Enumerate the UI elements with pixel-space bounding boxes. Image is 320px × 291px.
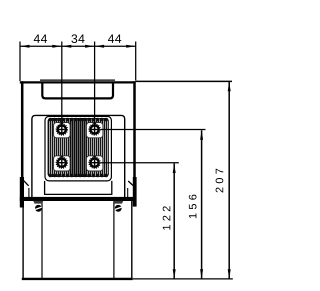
label 44: [108, 35, 121, 43]
arrowheads: [20, 45, 231, 279]
207 top extension: [136, 80, 232, 82]
122 arrow down: [173, 269, 176, 279]
dim line 207: [228, 82, 230, 279]
extension line left edge: [19, 42, 21, 82]
right chamfer: [128, 181, 133, 186]
156 arrow up: [200, 130, 203, 140]
clamp marks: [60, 122, 96, 157]
leader from top-right screw (156 ref): [101, 129, 206, 131]
left chamfer: [24, 181, 29, 186]
right nut under flange: [113, 201, 123, 204]
122 arrow up: [173, 164, 176, 174]
extension line right screw column: [94, 42, 96, 127]
terminal screws (knurled ring + phillips): [56, 124, 100, 168]
screw plates: [54, 123, 103, 171]
label 34: [71, 34, 84, 43]
lower body inner right line: [113, 200, 115, 279]
left slotted screw: [34, 204, 43, 213]
top edge (thick): [20, 81, 136, 83]
dim line 122: [173, 164, 175, 279]
pedestal bottom edge: [45, 193, 112, 195]
label 44: [34, 35, 47, 43]
baseline extension: [133, 278, 233, 280]
block top scallops: [49, 118, 108, 122]
top back edge (thin): [40, 79, 115, 81]
lower body right wall: [131, 201, 133, 279]
block hatched body: [48, 118, 108, 176]
left nut under flange: [33, 201, 43, 204]
extension line right edge: [135, 42, 137, 81]
terminal screw bottom-right: [89, 157, 100, 168]
lower body left wall: [22, 201, 24, 279]
label 156: [189, 195, 197, 218]
block outer frame: [45, 116, 111, 180]
inner module outline: [32, 115, 125, 197]
label 207: [216, 169, 224, 193]
left inner stub: [28, 188, 30, 197]
207 arrow up: [228, 82, 231, 92]
pedestal right side: [111, 181, 113, 195]
top dim line: [20, 45, 136, 47]
dim line 156: [201, 130, 203, 279]
label 122: [163, 206, 171, 229]
leader from bottom-right screw (122 ref): [101, 162, 179, 164]
flange bar: [20, 197, 137, 201]
right skirt bar: [133, 177, 137, 207]
207 arrow down: [228, 269, 231, 279]
terminal screw top-left: [56, 124, 67, 135]
right inner stub: [127, 188, 129, 197]
lid recess: [42, 83, 113, 98]
lower body inner left line: [41, 200, 43, 279]
extension line left screw column: [61, 42, 63, 127]
right slotted screw: [114, 204, 123, 213]
right wall: [133, 81, 136, 198]
pedestal left side: [44, 181, 46, 195]
left skirt bar: [20, 177, 24, 208]
left wall: [21, 81, 24, 198]
terminal screw bottom-left: [56, 157, 67, 168]
block center dark column: [70, 118, 87, 176]
156 arrow down: [200, 269, 203, 279]
top chain arrows: [20, 45, 30, 48]
terminal screw top-right: [89, 124, 100, 135]
bottom edge: [22, 278, 133, 280]
block bottom scallops: [49, 174, 108, 178]
